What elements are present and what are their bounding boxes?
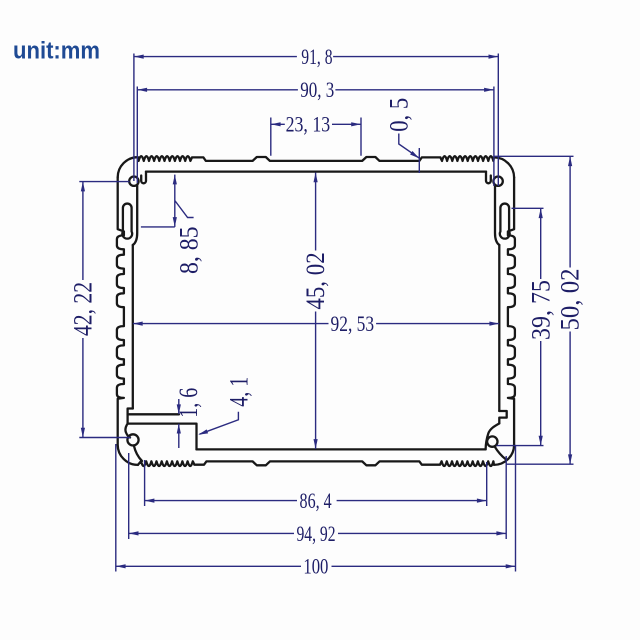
extension lines 86,4 [145,460,487,506]
extension line 8,85 [141,226,175,228]
boss bottom-right [487,436,497,446]
dimension 86,4 [145,488,487,513]
boss bottom-left [127,434,138,445]
svg-text:45, 02: 45, 02 [301,252,330,309]
dimension 8,85 [173,175,177,227]
extension lines 42,22 [79,182,130,438]
extension lines 100 [116,444,516,572]
hook top-left [141,172,146,184]
svg-text:42, 22: 42, 22 [69,282,98,336]
curl bottom-right [486,423,500,449]
dimension 23,13 [271,112,361,137]
profile bottom edge [138,445,514,466]
boss top-left [129,177,138,186]
inner ceiling [146,170,486,172]
pcb lip step bottom-left [128,409,133,424]
boss top-right [493,177,502,186]
svg-text:23, 13: 23, 13 [286,112,331,137]
svg-text:8, 85: 8, 85 [174,226,203,274]
extension lines 50,02 [495,156,574,464]
dimension 42,22 [69,182,98,438]
inner wall left [132,245,134,409]
extension lines 90,3 [137,87,494,187]
dimension 100 [116,554,516,579]
corner inner curve bottom-right [495,446,507,459]
leader 8,85 [175,201,194,218]
extension lines 91,8 [134,54,498,187]
svg-text:92, 53: 92, 53 [331,311,375,336]
extension lines 23,13 [271,118,361,156]
dimension 50,02 [556,156,585,464]
svg-text:100: 100 [303,554,328,579]
dimension 45,02 [301,173,330,449]
dimension 39,75 [526,208,555,445]
corner inner curve bottom-left [134,445,142,461]
dimension 94,92 [129,521,507,546]
corner wall top-left [133,186,137,246]
dimension 4,1 [197,377,253,437]
svg-text:0, 5: 0, 5 [384,98,413,132]
svg-text:unit:mm: unit:mm [13,38,100,65]
hook top-right [486,172,491,184]
svg-text:4, 1: 4, 1 [225,377,254,407]
keyhole slot top-left [122,204,132,239]
svg-text:50, 02: 50, 02 [556,269,585,331]
extension lines 94,92 [129,453,507,539]
profile right wall [508,177,515,444]
pcb notch bottom-right [499,411,506,423]
dimension 1,6 [174,388,203,448]
svg-text:90, 3: 90, 3 [300,77,334,102]
extension lines 39,75 [497,208,544,445]
svg-text:91, 8: 91, 8 [301,44,332,69]
dimension 90,3 [137,77,494,102]
profile top edge [118,156,514,177]
svg-text:94, 92: 94, 92 [296,521,335,546]
pcb rail bottom-left [128,424,197,450]
dimension 92,53 [133,311,499,336]
svg-text:39, 75: 39, 75 [526,280,555,340]
svg-text:86, 4: 86, 4 [300,488,332,513]
dimension 91,8 [134,44,498,69]
keyhole slot top-right [500,204,510,239]
svg-text:1, 6: 1, 6 [174,388,203,418]
corner wall top-right [495,186,499,246]
boss bottom-left curl [125,424,130,438]
dimension 0,5 [384,98,420,173]
inner wall right [498,245,500,411]
inner floor [197,448,486,450]
pcb lip line [128,413,179,415]
profile left wall [117,177,138,465]
